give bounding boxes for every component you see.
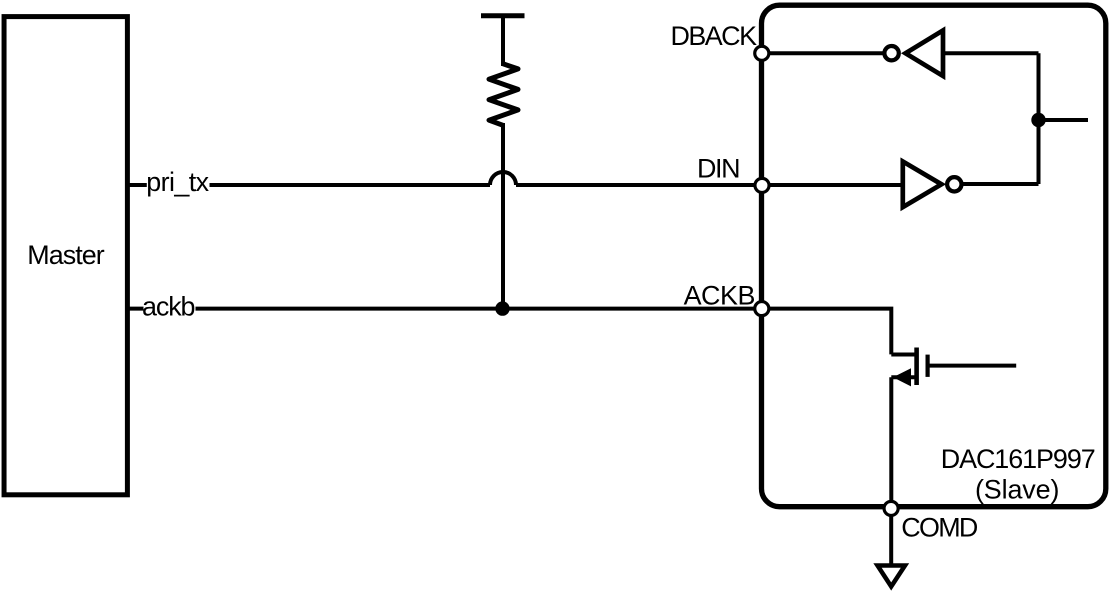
ground: [878, 566, 906, 587]
wire resistor to ackb junction: [501, 123, 505, 309]
master box: [4, 17, 127, 495]
transistor Q1 source arrow: [893, 368, 911, 386]
supply bar: [481, 13, 525, 18]
svg-text:Master: Master: [27, 240, 105, 270]
transistor Q1 source lead: [891, 375, 916, 379]
svg-text:COMD: COMD: [901, 513, 978, 543]
wire right vertical feedback: [1037, 53, 1041, 184]
wire ackb stub: [126, 307, 144, 311]
pin DIN circle: [755, 178, 769, 192]
svg-text:ackb: ackb: [142, 291, 196, 321]
wire U2 bubble to right vertical: [962, 182, 1039, 186]
wire DIN to inverter U2: [762, 183, 901, 187]
wire source to COMD: [889, 377, 893, 508]
wire U1 to right vertical: [943, 51, 1039, 55]
wire ACKB to MOSFET drain: [762, 309, 892, 355]
svg-text:DIN: DIN: [697, 154, 741, 184]
inverter U2 triangle (right-pointing): [903, 162, 942, 208]
pin DBACK circle: [755, 46, 769, 60]
wire supply to resistor: [501, 16, 505, 66]
wire stub right of junction: [1039, 118, 1089, 122]
resistor R pullup: [489, 64, 518, 126]
transistor Q1 drain lead: [891, 352, 916, 356]
wire pri_tx stub: [126, 183, 147, 187]
svg-text:DBACK: DBACK: [671, 21, 758, 51]
svg-text:DAC161P997: DAC161P997: [941, 444, 1096, 474]
inverter U2 output bubble: [947, 177, 961, 191]
svg-text:pri_tx: pri_tx: [146, 167, 209, 197]
junction dot resistor/ackb: [495, 301, 509, 315]
wire hop to DIN pin: [516, 183, 762, 187]
svg-text:(Slave): (Slave): [975, 475, 1059, 505]
junction dot feedback: [1031, 113, 1045, 127]
wire hop over resistor net: [490, 172, 516, 185]
wire COMD to ground: [889, 508, 893, 564]
wire pri_tx left of hop: [210, 183, 491, 187]
inverter U1 triangle (left-pointing): [906, 30, 944, 76]
pin ACKB circle: [755, 302, 769, 316]
transistor Q1 gate bar: [925, 355, 929, 377]
transistor Q1 gate wire: [928, 364, 1017, 368]
svg-text:ACKB: ACKB: [684, 281, 756, 311]
wire ackb to ACKB pin: [196, 307, 762, 311]
transistor Q1 channel bar: [914, 348, 919, 386]
inverter U1 input bubble (left side): [884, 46, 898, 60]
IC body DAC161P997 (Slave) rounded box: [762, 5, 1106, 507]
wire DBACK to inverter U1 bubble: [762, 51, 885, 55]
pin COMD circle: [884, 501, 898, 515]
